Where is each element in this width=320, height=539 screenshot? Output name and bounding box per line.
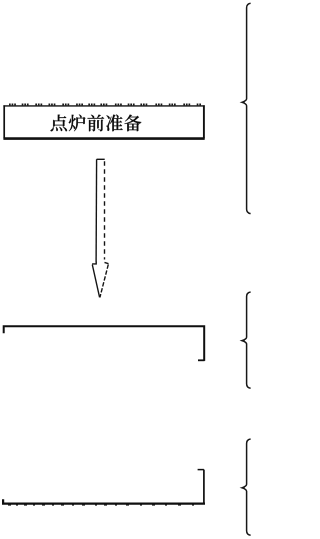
partial box (middle): left tick, top edge, right edge, bottom-right tick (4, 326, 205, 361)
right brace 3 (spans bottom stage) (242, 439, 251, 535)
flow arrow: hollow shaft with dashed right side and open arrowhead (92, 159, 108, 297)
partial box (bottom): top-right stub, right edge, bottom edge, left tick (3, 470, 205, 505)
process box: 点炉前准备 (pre-ignition preparation) (3, 104, 204, 138)
right brace 1 (spans preparation stage) (242, 3, 251, 213)
right brace 2 (spans middle stage) (242, 292, 251, 388)
box label text: 点炉前准备 (51, 115, 142, 132)
